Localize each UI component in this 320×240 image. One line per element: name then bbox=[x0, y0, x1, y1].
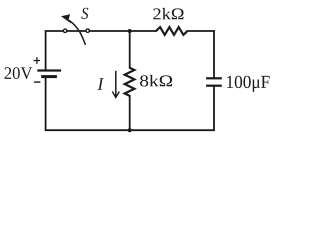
resistor 8kΩ zigzag bbox=[125, 68, 135, 96]
wire right branch upper (corner down to capacitor) bbox=[213, 31, 215, 77]
switch S right contact bbox=[86, 29, 90, 33]
switch S blade (closed) bbox=[67, 30, 86, 32]
switch S left contact bbox=[63, 29, 67, 33]
current arrow I (pointing down) bbox=[112, 71, 119, 98]
wire (2k resistor to top-right corner) bbox=[187, 30, 214, 32]
label S (switch) bbox=[81, 8, 88, 19]
wire bottom-left (bottom node to battery minus) bbox=[46, 77, 130, 130]
battery minus sign bbox=[34, 81, 40, 83]
switch S opening-motion arc bbox=[70, 21, 86, 45]
wire top-left (corner to switch) bbox=[46, 31, 64, 70]
value label 8kΩ bbox=[140, 75, 172, 87]
battery plus sign bbox=[34, 57, 41, 64]
node (bottom junction dot) bbox=[128, 128, 132, 132]
label I (current) bbox=[97, 78, 104, 90]
battery 20V negative plate (short thick) bbox=[41, 75, 57, 78]
wire right branch lower (capacitor to bottom-right corner) bbox=[130, 87, 214, 130]
capacitor 100µF bottom plate bbox=[206, 85, 222, 87]
battery 20V positive plate (long) bbox=[37, 69, 61, 71]
node (top junction dot) bbox=[128, 29, 132, 33]
switch S motion arrowhead bbox=[61, 14, 71, 23]
value label 20V bbox=[5, 67, 33, 79]
resistor 2kΩ zigzag bbox=[156, 27, 187, 35]
capacitor 100µF top plate bbox=[206, 77, 222, 79]
wire (switch to 2k resistor, through top node) bbox=[89, 30, 156, 32]
wire middle branch upper (top node to 8k resistor) bbox=[129, 31, 131, 68]
value label 2kΩ bbox=[153, 8, 183, 19]
value label 100µF bbox=[227, 76, 270, 92]
wire middle branch lower (8k resistor to bottom node) bbox=[129, 96, 131, 130]
